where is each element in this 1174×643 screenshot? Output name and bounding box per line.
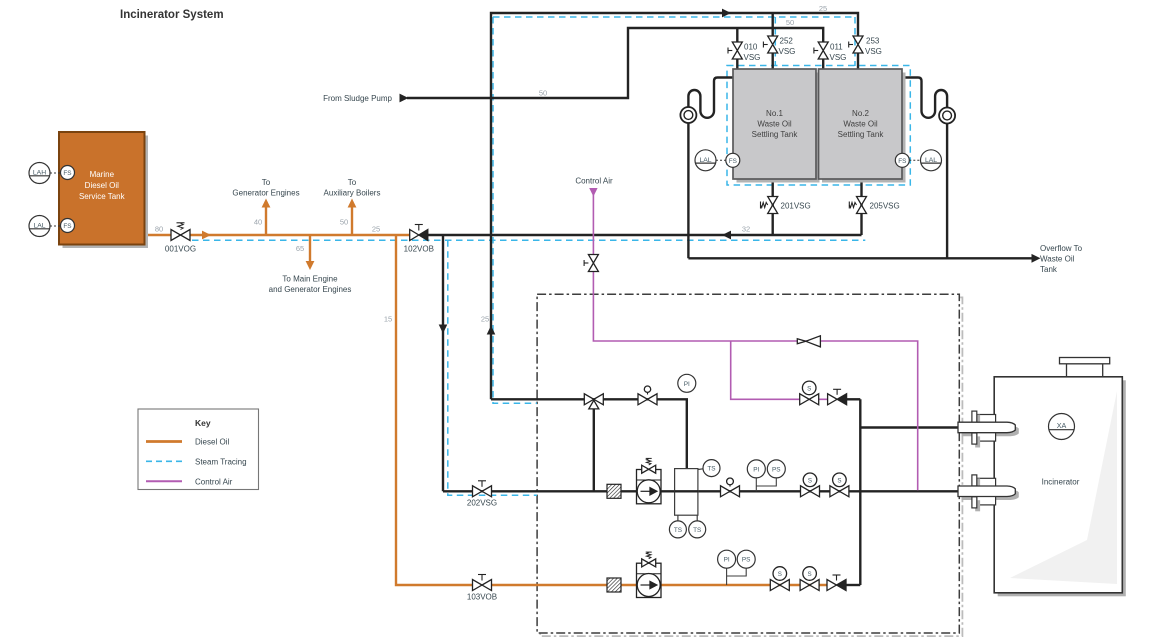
wire control air inlet — [592, 194, 594, 255]
steam tracing drop to 253VSG — [854, 17, 856, 66]
valve 253 VSG — [853, 36, 863, 45]
svg-text:LAL: LAL — [925, 157, 937, 164]
svg-text:80: 80 — [155, 225, 163, 234]
tank No.1 Waste Oil Settling Tank — [733, 69, 816, 179]
valve 010 VSG — [732, 42, 742, 51]
svg-text:010: 010 — [744, 43, 758, 52]
wire 010VSG to tank1 — [736, 59, 738, 71]
steam tracing vertical along 25 return riser — [493, 17, 537, 403]
valve 001VOG — [171, 230, 181, 241]
steam tracing along suction drop to 202VSG — [448, 240, 537, 495]
wire tank2 drain to 205VSG — [860, 179, 862, 235]
wire diesel main from service tank — [145, 234, 172, 236]
wire 253VSG to tank2 — [857, 53, 859, 71]
steam tracing along top recirculation line — [493, 16, 855, 18]
svg-text:Diesel Oil: Diesel Oil — [85, 181, 119, 190]
svg-text:Settling Tank: Settling Tank — [838, 130, 885, 139]
wire from sludge pump — [407, 28, 823, 98]
wire control air to distribution — [593, 271, 917, 490]
svg-text:Settling Tank: Settling Tank — [752, 130, 799, 139]
svg-text:Service Tank: Service Tank — [79, 192, 126, 201]
instrument FS tank2 — [895, 153, 909, 167]
svg-text:From Sludge Pump: From Sludge Pump — [323, 94, 392, 103]
solenoid valve 2 (mid line) — [830, 473, 849, 497]
svg-text:Incinerator: Incinerator — [1042, 478, 1080, 487]
wire control air branch to solenoid — [731, 341, 828, 399]
svg-text:25: 25 — [372, 225, 380, 234]
svg-text:202VSG: 202VSG — [467, 499, 497, 508]
svg-text:50: 50 — [539, 89, 547, 98]
wire diesel main to 102VOB — [190, 234, 410, 236]
wire pilot line check to header — [846, 584, 861, 586]
instrument PS (mid) — [767, 460, 785, 478]
svg-text:205VSG: 205VSG — [870, 201, 900, 210]
wire left vent gooseneck — [688, 78, 733, 259]
instrument PS (diesel) — [737, 550, 755, 568]
arrow to auxiliary boilers — [348, 199, 357, 208]
pump unit (waste oil) — [637, 458, 662, 503]
wire recirculation top line — [491, 13, 858, 399]
wire branch to main engine — [309, 235, 311, 262]
ball valve (top line) — [638, 394, 648, 405]
svg-text:PI: PI — [684, 381, 690, 388]
svg-text:Steam Tracing: Steam Tracing — [195, 457, 247, 466]
svg-text:TS: TS — [674, 527, 682, 534]
key control air swatch — [146, 480, 182, 482]
wire mid line through heater — [675, 490, 698, 492]
wire diesel drop to 103VOB — [396, 235, 473, 585]
wire suction drop to pump line — [442, 235, 444, 491]
wire LAL to FS dashed — [50, 225, 61, 227]
incinerator chimney stack — [1060, 358, 1110, 377]
instrument LAL (service tank) — [29, 216, 50, 237]
incinerator interior shading — [1010, 391, 1117, 584]
svg-text:XA: XA — [1057, 421, 1067, 430]
service tank shadow — [63, 136, 149, 249]
svg-text:LAH: LAH — [33, 170, 46, 177]
check valve (top line) — [828, 394, 838, 405]
valve 102VOB — [410, 230, 419, 241]
instrument TS (heater bottom 1) — [669, 521, 686, 538]
control air reducing check valve — [797, 339, 806, 344]
instrument FS tank1 — [726, 153, 740, 167]
svg-text:FS: FS — [729, 158, 737, 165]
svg-text:001VOG: 001VOG — [165, 245, 196, 254]
wire LAH to FS dashed — [50, 172, 61, 174]
key diesel oil swatch — [146, 440, 182, 443]
wire FS to LAL dashed (tank1) — [716, 159, 726, 161]
svg-text:50: 50 — [340, 218, 348, 227]
svg-text:LAL: LAL — [33, 223, 45, 230]
instrument XA — [1049, 414, 1075, 440]
arrow to generator engines — [262, 199, 271, 208]
flame arrester right — [939, 108, 955, 124]
flow arrow return line (left) — [722, 231, 731, 240]
burner B1 (top) — [958, 411, 1019, 447]
svg-text:PS: PS — [742, 557, 751, 564]
relief valve on waste oil pump — [642, 465, 649, 473]
incinerator shadow — [998, 380, 1126, 596]
flow arrow overflow — [1032, 254, 1041, 263]
svg-text:Key: Key — [195, 418, 211, 428]
instrument tap PI/PS (mid line) — [756, 478, 776, 491]
wire burner feed mid line — [443, 490, 959, 492]
svg-text:PS: PS — [772, 466, 781, 473]
instrument TS (heater top) — [703, 460, 720, 477]
svg-text:201VSG: 201VSG — [781, 201, 811, 210]
svg-text:VSG: VSG — [779, 47, 796, 56]
svg-text:Control Air: Control Air — [575, 177, 613, 186]
svg-text:011: 011 — [830, 43, 843, 52]
strainer (waste oil) — [607, 484, 621, 498]
instrument LAL tank2 — [921, 150, 942, 171]
instrument PI (diesel) — [718, 550, 736, 568]
valve control air isolation — [588, 255, 598, 264]
valve 011 VSG — [818, 42, 828, 51]
instrument tap PI/PS (diesel line) — [727, 568, 747, 585]
svg-text:Waste Oil: Waste Oil — [843, 120, 878, 129]
svg-text:FS: FS — [63, 223, 71, 230]
svg-text:253: 253 — [866, 37, 880, 46]
key steam tracing swatch — [146, 460, 182, 462]
svg-text:102VOB: 102VOB — [404, 245, 434, 254]
svg-text:Generator Engines: Generator Engines — [232, 189, 299, 198]
wire right header — [859, 399, 861, 585]
key legend box — [138, 409, 259, 490]
wire after check to header (top line) — [846, 398, 860, 400]
svg-text:No.2: No.2 — [852, 109, 869, 118]
svg-text:Waste Oil: Waste Oil — [757, 120, 792, 129]
valve 205VSG — [857, 197, 867, 206]
tank T1 Marine Diesel Oil Service Tank — [59, 132, 145, 245]
svg-text:LAL: LAL — [699, 157, 711, 164]
flow arrow diesel main — [202, 231, 211, 240]
flame arrester left — [680, 107, 696, 123]
wire sludge branch to 010VSG — [736, 28, 738, 43]
svg-text:252: 252 — [780, 37, 794, 46]
svg-text:25: 25 — [819, 4, 827, 13]
instrument LAL tank1 — [695, 150, 716, 171]
svg-text:S: S — [808, 477, 812, 484]
svg-text:S: S — [807, 385, 811, 392]
wire top burner feed — [860, 426, 958, 428]
svg-text:25: 25 — [481, 315, 489, 324]
arrow control air — [589, 188, 597, 197]
svg-text:To Main Engine: To Main Engine — [282, 275, 338, 284]
arrow from sludge pump — [400, 94, 409, 103]
valve 201VSG — [768, 197, 778, 206]
svg-text:Control Air: Control Air — [195, 477, 233, 486]
instrument PI (top line corner) — [678, 374, 696, 392]
solenoid valve 1 (diesel line) — [770, 567, 789, 591]
svg-text:S: S — [808, 571, 812, 578]
svg-text:VSG: VSG — [744, 53, 761, 62]
wire branch to 252VSG — [772, 13, 774, 37]
tank No.2 Waste Oil Settling Tank — [819, 69, 903, 179]
svg-text:FS: FS — [898, 158, 906, 165]
solenoid valve 1 (mid line) — [801, 473, 820, 497]
instrument LAH — [29, 163, 50, 184]
wire right vent gooseneck — [902, 78, 947, 259]
solenoid valve (top line) — [800, 394, 810, 405]
pump unit (diesel pilot) — [637, 552, 662, 597]
svg-text:Diesel Oil: Diesel Oil — [195, 438, 229, 447]
svg-text:PI: PI — [753, 466, 759, 473]
steam tracing drop to 252VSG — [774, 17, 776, 66]
svg-text:32: 32 — [742, 225, 750, 234]
svg-text:15: 15 — [384, 315, 392, 324]
wire three-way valve drop — [593, 405, 595, 491]
valve 202VSG — [473, 486, 483, 497]
svg-text:50: 50 — [786, 18, 794, 27]
steam tracing along diesel suction line — [192, 239, 865, 241]
arrow to main engine — [306, 261, 315, 270]
incinerator unit dash-dot boundary — [537, 294, 959, 633]
relief valve on diesel pump — [642, 559, 649, 567]
svg-text:TS: TS — [693, 527, 701, 534]
svg-text:To: To — [348, 178, 357, 187]
flow arrow down suction — [439, 325, 448, 334]
wire diesel pilot line — [491, 584, 827, 586]
three-way valve — [584, 394, 594, 405]
instrument PI (mid) — [747, 460, 765, 478]
wire tank1 drain to 201VSG — [772, 179, 774, 235]
wire FS to LAL dashed (tank2) — [909, 159, 920, 161]
wire 252VSG to tank1 — [772, 53, 774, 71]
svg-text:Overflow To: Overflow To — [1040, 244, 1083, 253]
flow arrow up return riser — [487, 326, 496, 335]
svg-text:VSG: VSG — [865, 47, 882, 56]
burner B2 (bottom) — [958, 475, 1019, 511]
svg-text:To: To — [262, 178, 271, 187]
solenoid valve 2 (diesel line) — [800, 567, 819, 591]
check valve (diesel line) — [827, 575, 846, 591]
svg-text:and Generator Engines: and Generator Engines — [269, 285, 352, 294]
svg-text:40: 40 — [254, 218, 262, 227]
wire top interior line — [491, 399, 687, 468]
instrument FS (low) — [61, 219, 75, 233]
flow arrow top line — [722, 9, 731, 18]
wire branch to auxiliary boilers — [351, 206, 353, 235]
wire 011VSG to tank2 — [822, 59, 824, 71]
svg-text:VSG: VSG — [830, 53, 847, 62]
instrument FS (high) — [61, 166, 75, 180]
svg-text:Auxiliary Boilers: Auxiliary Boilers — [324, 189, 381, 198]
heater block — [675, 469, 703, 521]
svg-text:65: 65 — [296, 244, 304, 253]
svg-text:103VOB: 103VOB — [467, 593, 497, 602]
svg-text:S: S — [778, 571, 782, 578]
valve 252 VSG — [768, 36, 778, 45]
wire branch to generator engines — [265, 206, 267, 235]
svg-text:Tank: Tank — [1040, 265, 1058, 274]
svg-text:FS: FS — [63, 170, 71, 177]
svg-text:Marine: Marine — [90, 170, 115, 179]
strainer (diesel) — [607, 578, 621, 592]
svg-text:No.1: No.1 — [766, 109, 783, 118]
steam tracing box around settling tanks — [727, 66, 910, 186]
svg-text:TS: TS — [707, 466, 715, 473]
valve 103VOB — [473, 580, 483, 591]
svg-text:S: S — [837, 477, 841, 484]
pipe size labels — [155, 4, 827, 324]
settling tank shadows — [737, 73, 820, 183]
control valve (mid line) — [721, 478, 740, 497]
instrument TS (heater bottom 2) — [689, 521, 706, 538]
wire overflow line — [688, 257, 1032, 259]
svg-text:Waste Oil: Waste Oil — [1040, 255, 1075, 264]
svg-text:Incinerator System: Incinerator System — [120, 9, 224, 21]
incinerator unit boundary shadow — [540, 297, 962, 636]
svg-text:PI: PI — [724, 557, 730, 564]
wire return line 102VOB to tanks — [428, 234, 862, 236]
incinerator body — [994, 377, 1122, 593]
